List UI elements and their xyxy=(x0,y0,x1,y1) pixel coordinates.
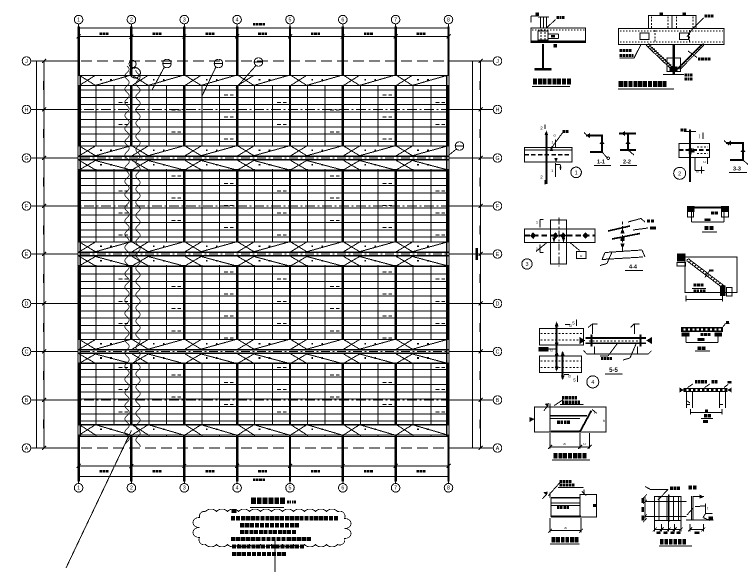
row line F dash-dot xyxy=(33,205,494,207)
svg-text:5-5: 5-5 xyxy=(609,368,618,374)
detail XG1 diagonal tie rod in frame xyxy=(677,254,737,302)
detail gutter type B cross-section xyxy=(542,480,596,533)
bottom dimension lines with bay dimensions xyxy=(77,463,451,481)
plan left edge thick line xyxy=(79,75,81,436)
svg-text:3: 3 xyxy=(525,262,528,268)
svg-text:1: 1 xyxy=(536,220,539,225)
svg-text:3-3: 3-3 xyxy=(733,167,741,173)
svg-text:E: E xyxy=(25,252,29,258)
wavy break lines near grid 2 xyxy=(125,66,140,447)
notes text inside cloud xyxy=(231,509,338,541)
svg-text:α: α xyxy=(553,133,556,138)
plan grid: purlin horizontal lines xyxy=(79,75,449,428)
svg-text:8: 8 xyxy=(447,486,450,492)
plan grid: intermediate rafter vertical lines xyxy=(96,75,431,436)
section 3-3 purlin profile xyxy=(724,141,748,173)
svg-text:H: H xyxy=(496,107,500,113)
section 2-2 purlin profile xyxy=(619,131,637,166)
top roof brace band xyxy=(79,75,449,85)
svg-text:2: 2 xyxy=(130,18,133,24)
svg-text:4: 4 xyxy=(236,18,239,24)
detail 3 balloon xyxy=(522,259,532,269)
svg-text:B: B xyxy=(696,169,699,174)
right dimension lines with row dimensions xyxy=(469,59,484,450)
svg-text:D: D xyxy=(25,301,29,307)
svg-text:3: 3 xyxy=(183,486,186,492)
svg-text:G: G xyxy=(24,156,28,162)
svg-text:5: 5 xyxy=(572,321,575,326)
svg-text:1: 1 xyxy=(575,170,578,176)
callout balloon 3 on top band xyxy=(236,58,263,88)
svg-text:H: H xyxy=(25,107,29,113)
svg-text:5: 5 xyxy=(289,18,292,24)
detail D1: existing column to new beam connection xyxy=(531,13,586,70)
section line below notes xyxy=(274,540,276,572)
svg-text:7: 7 xyxy=(394,18,397,24)
gutter A title xyxy=(552,453,590,460)
svg-text:α: α xyxy=(550,348,553,353)
detail 2: purlin connection at ridge xyxy=(679,129,710,183)
svg-text:2-2: 2-2 xyxy=(623,160,631,166)
detail 4: double purlin brace plan xyxy=(539,320,584,383)
row line A dashed xyxy=(33,447,494,449)
section 4-4 brace profile xyxy=(600,219,656,271)
detail D2 title xyxy=(618,81,674,89)
detail 2 balloon xyxy=(674,167,686,179)
svg-text:F: F xyxy=(25,204,28,210)
svg-text:5: 5 xyxy=(573,378,576,383)
bottom roof brace band xyxy=(79,425,449,437)
callout balloon 1 on top band xyxy=(152,59,171,90)
svg-text:G: G xyxy=(495,156,499,162)
svg-text:1: 1 xyxy=(77,18,80,24)
svg-text:2: 2 xyxy=(130,486,133,492)
notes text below cloud xyxy=(232,544,304,556)
top dimension lines with bay dimensions xyxy=(77,23,451,40)
svg-text:B: B xyxy=(25,398,29,404)
left dimension lines with row dimensions xyxy=(33,59,47,450)
detail 1 balloon xyxy=(571,167,582,178)
svg-text:J: J xyxy=(25,59,28,65)
svg-text:a: a xyxy=(563,441,566,446)
gutter B title xyxy=(550,537,580,544)
leader line to bottom-left corner xyxy=(66,431,131,569)
detail D2: new inter-column bracing connection xyxy=(619,13,724,81)
brace band at row C xyxy=(33,340,494,364)
left row bubbles J-A with stems xyxy=(22,57,78,453)
svg-text:u: u xyxy=(583,441,585,446)
bottom grid bubbles 1-8 with stems xyxy=(74,478,453,492)
svg-text:2: 2 xyxy=(540,126,543,131)
detail gutter type A cross-section xyxy=(530,396,607,449)
plan title block xyxy=(250,497,296,507)
svg-text:u: u xyxy=(580,253,582,258)
detail callout circle pair at grid 2 xyxy=(129,61,140,79)
detail C2 purlin elevation xyxy=(681,321,730,351)
callout balloon 2 on top band xyxy=(202,59,223,96)
detail GL bottom-right purlin with posts xyxy=(680,380,732,423)
notes revision cloud xyxy=(193,509,351,547)
svg-text:1: 1 xyxy=(77,486,80,492)
svg-text:1-1: 1-1 xyxy=(597,160,605,166)
svg-text:1: 1 xyxy=(551,168,554,173)
detail 3: purlin to frame connection xyxy=(525,218,596,267)
row line D dash-dot xyxy=(33,303,494,305)
brace band at row E xyxy=(33,242,494,266)
svg-text:2: 2 xyxy=(678,172,681,178)
svg-text:B: B xyxy=(496,398,500,404)
brace band at row G xyxy=(33,146,494,170)
plan right edge thick line xyxy=(446,75,448,436)
anchor bolt layout title xyxy=(659,539,692,546)
svg-text:): ) xyxy=(699,134,701,139)
detail anchor bolt layout plan xyxy=(642,487,687,535)
detail 1: purlin brace connection plan xyxy=(525,125,572,185)
svg-text:h: h xyxy=(603,418,605,423)
callout balloon at right edge row G xyxy=(449,142,464,155)
svg-text:6: 6 xyxy=(341,486,344,492)
svg-text:4: 4 xyxy=(591,380,594,386)
plan grid: main column grid lines (1-8) xyxy=(79,27,449,482)
svg-text:C: C xyxy=(25,349,29,355)
svg-text:u: u xyxy=(703,159,705,164)
svg-text:D: D xyxy=(496,301,500,307)
anchor bolt elevation xyxy=(686,486,714,535)
right row bubbles J-A with stems xyxy=(449,57,502,453)
svg-text:4-4: 4-4 xyxy=(629,265,638,271)
row line J dashed xyxy=(33,60,494,62)
detail 4 balloon xyxy=(587,376,599,388)
svg-text:8: 8 xyxy=(447,18,450,24)
svg-text:A: A xyxy=(496,446,500,452)
svg-text:A: A xyxy=(25,446,29,452)
svg-text:5: 5 xyxy=(289,486,292,492)
svg-text:C: C xyxy=(496,349,500,355)
row line B dash-dot xyxy=(33,399,494,401)
in-field purlin splice dash marks xyxy=(118,95,445,412)
top grid bubbles 1-8 with stems xyxy=(74,15,453,27)
detail ZC1 small beam with end clips xyxy=(687,206,729,232)
svg-text:4: 4 xyxy=(236,486,239,492)
svg-text:t: t xyxy=(707,506,709,511)
svg-text:2: 2 xyxy=(540,175,543,180)
svg-text:F: F xyxy=(496,204,499,210)
row line H dash-dot xyxy=(33,109,494,111)
svg-text:E: E xyxy=(496,252,500,258)
svg-text:3: 3 xyxy=(183,18,186,24)
svg-text:6: 6 xyxy=(341,18,344,24)
detail D1 title xyxy=(532,79,571,87)
svg-text:J: J xyxy=(496,59,499,65)
svg-text:7: 7 xyxy=(394,486,397,492)
section 5-5 purlin lap elevation xyxy=(580,324,653,374)
svg-text:a: a xyxy=(564,525,567,530)
section 1-1 purlin profile xyxy=(584,133,611,166)
